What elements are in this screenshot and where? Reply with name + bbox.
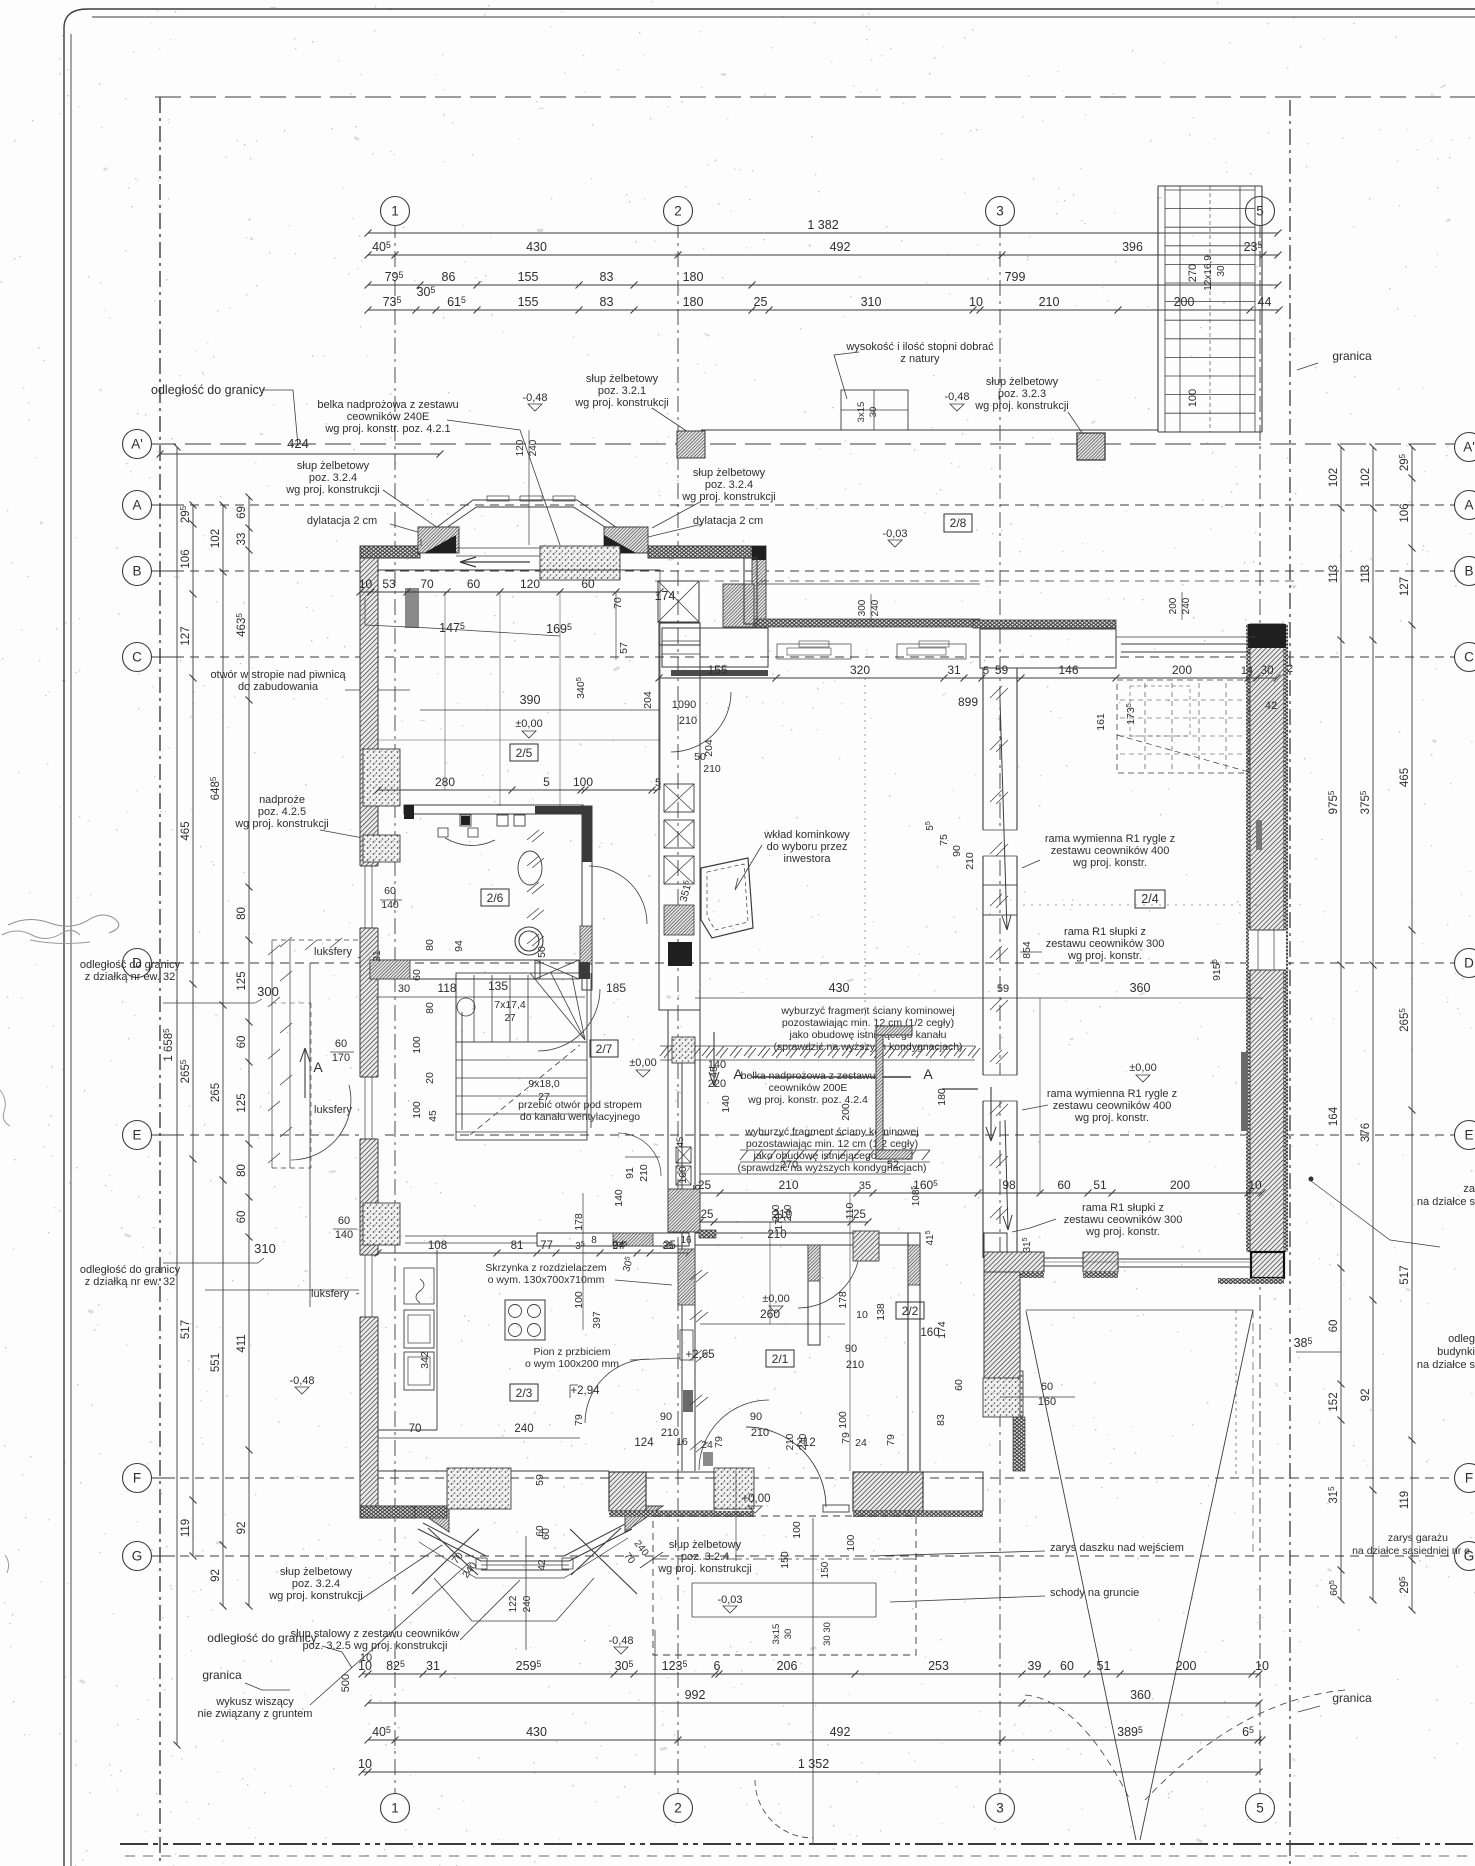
svg-text:z działką nr ew. 32: z działką nr ew. 32: [85, 1276, 176, 1288]
svg-text:210: 210: [751, 1427, 769, 1439]
svg-text:3: 3: [996, 1801, 1004, 1816]
svg-text:belka nadprożowa z zestawu: belka nadprożowa z zestawu: [741, 1070, 876, 1082]
svg-text:210: 210: [679, 715, 697, 727]
svg-text:30: 30: [783, 1629, 794, 1640]
svg-text:wg proj. konstrukcji: wg proj. konstrukcji: [574, 397, 669, 409]
svg-text:83: 83: [935, 1414, 947, 1426]
svg-text:6: 6: [714, 1659, 721, 1673]
svg-text:20: 20: [424, 1072, 436, 1084]
svg-text:2: 2: [674, 1801, 682, 1816]
svg-text:D: D: [1464, 956, 1474, 971]
svg-text:854: 854: [1021, 941, 1033, 959]
svg-text:110: 110: [844, 1202, 856, 1219]
svg-text:376: 376: [1360, 1123, 1372, 1142]
svg-text:210: 210: [785, 1433, 796, 1450]
svg-text:słup żelbetowy: słup żelbetowy: [280, 1566, 353, 1578]
svg-text:42: 42: [1265, 700, 1277, 712]
svg-text:odległość do granicy: odległość do granicy: [151, 383, 266, 397]
svg-text:25: 25: [754, 295, 768, 309]
svg-text:210: 210: [964, 852, 976, 870]
svg-text:otwór w stropie nad piwnicą: otwór w stropie nad piwnicą: [210, 669, 346, 681]
svg-text:180: 180: [683, 295, 704, 309]
svg-text:86: 86: [442, 270, 456, 284]
svg-text:90: 90: [660, 1411, 672, 1423]
svg-text:60: 60: [338, 1215, 350, 1227]
svg-text:ceowników 240E: ceowników 240E: [347, 411, 430, 423]
svg-text:59: 59: [995, 663, 1009, 677]
svg-text:-0,48: -0,48: [522, 392, 547, 404]
svg-text:127: 127: [180, 626, 192, 645]
svg-text:122: 122: [508, 1595, 519, 1612]
svg-text:152: 152: [1328, 1392, 1340, 1411]
svg-text:24: 24: [855, 1437, 867, 1449]
svg-text:210: 210: [703, 763, 721, 775]
svg-text:108: 108: [428, 1240, 447, 1252]
svg-text:200: 200: [1170, 1178, 1190, 1192]
svg-text:210: 210: [846, 1359, 864, 1371]
svg-text:25: 25: [701, 1209, 714, 1221]
svg-text:wg proj. konstrukcji: wg proj. konstrukcji: [657, 1563, 752, 1575]
svg-text:155: 155: [518, 295, 539, 309]
svg-text:90: 90: [750, 1411, 762, 1423]
svg-text:wykusz wiszący: wykusz wiszący: [215, 1696, 294, 1708]
svg-text:+0,00: +0,00: [741, 1493, 770, 1505]
svg-text:(sprawdzić na wyższych kondygn: (sprawdzić na wyższych kondygnacjach): [773, 1041, 962, 1053]
svg-text:słup żelbetowy: słup żelbetowy: [986, 376, 1059, 388]
svg-text:16: 16: [680, 1235, 692, 1246]
svg-text:185: 185: [606, 981, 626, 995]
svg-text:106: 106: [180, 549, 192, 568]
svg-text:118: 118: [437, 981, 456, 995]
svg-text:127: 127: [1399, 577, 1411, 596]
svg-text:30: 30: [1260, 663, 1274, 677]
svg-text:nadproże: nadproże: [259, 794, 305, 806]
svg-text:119: 119: [1399, 1491, 1411, 1509]
svg-text:120: 120: [520, 577, 540, 591]
svg-text:180: 180: [683, 270, 704, 284]
svg-text:5: 5: [543, 775, 550, 789]
svg-text:210: 210: [638, 1164, 650, 1182]
svg-text:492: 492: [830, 240, 851, 254]
svg-text:240: 240: [528, 439, 539, 456]
svg-text:60: 60: [953, 1379, 965, 1391]
svg-text:124: 124: [634, 1437, 654, 1449]
svg-text:luksfery: luksfery: [314, 1104, 352, 1116]
svg-text:odległość do granicy: odległość do granicy: [80, 1264, 181, 1276]
svg-text:wyburzyć fragment ściany komin: wyburzyć fragment ściany kominowej: [780, 1005, 954, 1017]
svg-text:60: 60: [335, 1038, 347, 1050]
svg-text:granica: granica: [1332, 349, 1372, 363]
svg-text:rama R1 słupki z: rama R1 słupki z: [1082, 1202, 1164, 1214]
svg-text:z działką nr ew. 32: z działką nr ew. 32: [85, 971, 176, 983]
svg-text:59: 59: [997, 983, 1009, 995]
svg-text:na działce s: na działce s: [1417, 1196, 1475, 1208]
svg-text:320: 320: [850, 663, 870, 677]
svg-text:poz. 3.2.4: poz. 3.2.4: [309, 472, 357, 484]
svg-text:luksfery: luksfery: [314, 946, 352, 958]
svg-text:1090: 1090: [672, 699, 696, 711]
svg-text:wg proj. konstrukcji: wg proj. konstrukcji: [974, 400, 1069, 412]
svg-text:120: 120: [515, 439, 526, 456]
svg-text:98: 98: [1002, 1178, 1016, 1192]
svg-text:C: C: [132, 650, 142, 665]
svg-text:7x17,4: 7x17,4: [494, 999, 526, 1011]
svg-text:35: 35: [662, 1241, 674, 1252]
svg-text:poz. 3.2.4: poz. 3.2.4: [681, 1551, 729, 1563]
svg-text:83: 83: [600, 270, 614, 284]
svg-text:51: 51: [1093, 1178, 1107, 1192]
svg-text:30: 30: [868, 407, 879, 418]
svg-text:92: 92: [1360, 1389, 1372, 1402]
svg-text:wg proj. konstrukcji: wg proj. konstrukcji: [268, 1590, 363, 1602]
svg-text:±0,00: ±0,00: [1129, 1062, 1156, 1074]
svg-text:1: 1: [391, 1801, 399, 1816]
svg-text:170: 170: [332, 1052, 350, 1064]
svg-text:2: 2: [674, 204, 682, 219]
svg-text:200: 200: [1172, 663, 1192, 677]
svg-text:-0,03: -0,03: [882, 528, 907, 540]
svg-text:70: 70: [612, 597, 624, 609]
svg-text:14: 14: [1241, 665, 1253, 677]
svg-text:500: 500: [340, 1674, 352, 1692]
svg-text:o wym 100x200 mm: o wym 100x200 mm: [525, 1358, 619, 1370]
svg-text:100: 100: [1187, 389, 1199, 407]
svg-text:schody na gruncie: schody na gruncie: [1050, 1587, 1139, 1599]
svg-text:174: 174: [936, 1321, 948, 1339]
svg-text:zestawu ceowników 400: zestawu ceowników 400: [1053, 1100, 1172, 1112]
svg-text:A: A: [1464, 498, 1473, 513]
svg-text:słup żelbetowy: słup żelbetowy: [693, 467, 766, 479]
svg-text:5: 5: [983, 665, 989, 677]
svg-text:2/1: 2/1: [772, 1352, 789, 1366]
svg-text:A': A': [131, 437, 143, 452]
svg-text:wysokość i ilość stopni dobrać: wysokość i ilość stopni dobrać: [845, 341, 994, 353]
svg-text:79: 79: [885, 1434, 897, 1446]
svg-text:100: 100: [573, 775, 593, 789]
svg-text:31: 31: [426, 1659, 440, 1673]
svg-text:poz. 3.2.4: poz. 3.2.4: [705, 479, 753, 491]
svg-text:10: 10: [359, 577, 373, 591]
svg-text:1 6585: 1 6585: [162, 1028, 175, 1062]
svg-text:2: 2: [1287, 663, 1293, 675]
svg-text:wg proj. konstr.: wg proj. konstr.: [1067, 950, 1142, 962]
svg-text:240: 240: [870, 599, 881, 616]
svg-text:80: 80: [424, 1002, 436, 1014]
svg-text:240: 240: [514, 1423, 533, 1435]
svg-text:360: 360: [1130, 1688, 1151, 1702]
svg-text:luksfery: luksfery: [311, 1288, 349, 1300]
svg-text:za: za: [1463, 1183, 1475, 1195]
svg-text:±0,00: ±0,00: [629, 1057, 656, 1069]
svg-text:90: 90: [845, 1343, 857, 1355]
svg-text:3x15: 3x15: [856, 402, 867, 423]
svg-text:31: 31: [372, 950, 383, 962]
svg-text:2/6: 2/6: [487, 891, 504, 905]
svg-text:342: 342: [419, 1351, 431, 1369]
svg-text:F: F: [1465, 1471, 1473, 1486]
svg-text:44: 44: [1258, 295, 1272, 309]
svg-text:z natury: z natury: [900, 353, 940, 365]
svg-text:240: 240: [1181, 597, 1192, 614]
svg-text:1 382: 1 382: [807, 218, 838, 232]
svg-text:odległość do granicy: odległość do granicy: [207, 1631, 316, 1645]
svg-text:pozostawiając min. 12 cm (1/2: pozostawiając min. 12 cm (1/2 cegły): [782, 1017, 954, 1029]
svg-text:100: 100: [837, 1411, 849, 1429]
svg-text:140: 140: [613, 1189, 625, 1207]
svg-text:92: 92: [236, 1522, 248, 1535]
svg-text:551: 551: [210, 1353, 222, 1372]
svg-text:24: 24: [701, 1439, 713, 1451]
svg-text:27: 27: [504, 1013, 516, 1024]
svg-text:80: 80: [236, 907, 248, 920]
svg-text:206: 206: [777, 1659, 798, 1673]
svg-text:10: 10: [1248, 1178, 1262, 1192]
svg-text:dylatacja 2 cm: dylatacja 2 cm: [307, 515, 377, 527]
svg-text:240: 240: [783, 1204, 794, 1221]
svg-text:310: 310: [254, 1241, 276, 1256]
svg-text:odleg: odleg: [1448, 1333, 1475, 1345]
svg-text:słup żelbetowy: słup żelbetowy: [586, 373, 659, 385]
svg-text:150: 150: [779, 1551, 791, 1569]
svg-text:3: 3: [996, 204, 1004, 219]
svg-text:60: 60: [236, 1211, 248, 1224]
svg-text:belka nadprożowa z zestawu: belka nadprożowa z zestawu: [317, 399, 458, 411]
svg-text:138: 138: [875, 1303, 887, 1321]
svg-text:70: 70: [409, 1423, 422, 1435]
svg-text:92: 92: [210, 1569, 222, 1582]
svg-text:zestawu ceowników 400: zestawu ceowników 400: [1051, 845, 1170, 857]
svg-text:-0,48: -0,48: [608, 1635, 633, 1647]
svg-text:79: 79: [573, 1414, 585, 1426]
svg-text:2/4: 2/4: [1141, 892, 1158, 906]
svg-text:140: 140: [335, 1229, 353, 1241]
svg-text:2/2: 2/2: [902, 1304, 919, 1318]
svg-text:146: 146: [1058, 663, 1078, 677]
svg-text:jako obudowę istniejącego kana: jako obudowę istniejącego kanału: [788, 1029, 946, 1041]
svg-text:pozostawiając min. 12 cm (1/2: pozostawiając min. 12 cm (1/2 cegły): [746, 1138, 918, 1150]
svg-text:wg proj. konstr. poz. 4.2.1: wg proj. konstr. poz. 4.2.1: [324, 423, 450, 435]
svg-text:12x16,9: 12x16,9: [1203, 255, 1214, 291]
svg-text:411: 411: [236, 1334, 248, 1352]
svg-text:200: 200: [771, 1204, 782, 1221]
svg-text:9x18,0: 9x18,0: [528, 1078, 560, 1090]
svg-text:10: 10: [360, 1652, 372, 1664]
svg-text:Skrzynka z rozdzielaczem: Skrzynka z rozdzielaczem: [485, 1262, 607, 1274]
svg-text:300: 300: [857, 599, 868, 616]
svg-text:rama R1 słupki z: rama R1 słupki z: [1064, 926, 1146, 938]
svg-text:poz. 3.2.5 wg proj. konstrukcj: poz. 3.2.5 wg proj. konstrukcji: [303, 1640, 448, 1652]
svg-text:10: 10: [856, 1309, 868, 1321]
svg-text:53: 53: [382, 577, 396, 591]
svg-text:zestawu ceowników 300: zestawu ceowników 300: [1046, 938, 1165, 950]
svg-text:60: 60: [1041, 1381, 1053, 1393]
svg-text:465: 465: [180, 821, 192, 840]
svg-text:360: 360: [1130, 981, 1151, 995]
svg-text:52: 52: [887, 1159, 899, 1171]
svg-text:10: 10: [358, 1757, 372, 1771]
svg-text:3x15: 3x15: [771, 1624, 782, 1645]
svg-text:±0,00: ±0,00: [515, 718, 542, 730]
svg-text:1: 1: [391, 204, 399, 219]
svg-text:161: 161: [1095, 713, 1107, 731]
svg-text:30 30: 30 30: [822, 1622, 833, 1646]
svg-text:113: 113: [1360, 565, 1372, 583]
svg-text:10: 10: [969, 295, 983, 309]
svg-text:A: A: [132, 498, 141, 513]
svg-text:77: 77: [540, 1240, 553, 1252]
svg-text:zarys daszku nad wejściem: zarys daszku nad wejściem: [1050, 1542, 1184, 1554]
svg-text:przebić otwór pod stropem: przebić otwór pod stropem: [518, 1099, 642, 1111]
svg-text:430: 430: [526, 1725, 547, 1739]
svg-text:60: 60: [467, 577, 481, 591]
svg-text:Pion z przbiciem: Pion z przbiciem: [533, 1346, 610, 1358]
svg-text:odległość do granicy: odległość do granicy: [80, 959, 181, 971]
svg-text:517: 517: [1399, 1265, 1411, 1284]
svg-text:60: 60: [535, 1525, 546, 1537]
svg-text:70: 70: [420, 577, 434, 591]
svg-text:45: 45: [675, 1137, 686, 1148]
svg-text:91: 91: [624, 1167, 636, 1179]
svg-text:E: E: [1464, 1128, 1473, 1143]
svg-text:wg proj. konstrukcji: wg proj. konstrukcji: [681, 491, 776, 503]
svg-text:180: 180: [936, 1088, 948, 1106]
svg-text:+2,65: +2,65: [685, 1349, 714, 1361]
svg-text:135: 135: [488, 979, 508, 993]
svg-text:wyburzyć fragment ściany komin: wyburzyć fragment ściany kominowej: [744, 1126, 918, 1138]
svg-text:160: 160: [1038, 1396, 1056, 1408]
svg-text:45: 45: [427, 1110, 439, 1122]
svg-text:265: 265: [210, 1083, 222, 1102]
svg-text:113: 113: [1328, 565, 1340, 583]
svg-text:granica: granica: [1332, 1691, 1372, 1705]
svg-text:granica: granica: [202, 1668, 242, 1682]
svg-text:A: A: [313, 1059, 323, 1075]
svg-text:33: 33: [236, 533, 248, 546]
svg-text:799: 799: [1005, 270, 1026, 284]
svg-text:E: E: [132, 1128, 141, 1143]
svg-text:140: 140: [381, 899, 399, 911]
svg-text:50: 50: [694, 751, 706, 763]
svg-text:rama wymienna R1 rygle z: rama wymienna R1 rygle z: [1045, 833, 1175, 845]
svg-text:253: 253: [928, 1659, 949, 1673]
svg-text:102: 102: [210, 529, 222, 548]
svg-text:992: 992: [685, 1688, 706, 1702]
svg-text:A: A: [923, 1066, 933, 1082]
svg-text:79: 79: [713, 1436, 725, 1448]
svg-text:100: 100: [411, 1101, 423, 1119]
svg-text:35: 35: [859, 1180, 871, 1192]
svg-text:270: 270: [1187, 264, 1199, 282]
svg-text:o wym. 130x700x710mm: o wym. 130x700x710mm: [488, 1274, 605, 1286]
svg-text:397: 397: [591, 1311, 603, 1329]
svg-text:396: 396: [1122, 240, 1143, 254]
svg-text:94: 94: [453, 940, 465, 952]
svg-text:60: 60: [384, 885, 396, 897]
svg-text:60: 60: [581, 577, 595, 591]
svg-text:1 352: 1 352: [798, 1757, 829, 1771]
svg-text:81: 81: [511, 1240, 524, 1252]
svg-text:wkład kominkowy: wkład kominkowy: [763, 829, 850, 841]
svg-text:212: 212: [796, 1437, 815, 1449]
svg-text:57: 57: [618, 642, 630, 654]
svg-text:220: 220: [708, 1078, 726, 1090]
svg-text:102: 102: [1328, 468, 1340, 487]
svg-text:69: 69: [236, 506, 248, 519]
svg-text:60: 60: [1057, 1178, 1071, 1192]
svg-text:465: 465: [1399, 768, 1411, 787]
svg-text:wg proj. konstr.: wg proj. konstr.: [1074, 1112, 1149, 1124]
svg-text:G: G: [132, 1549, 143, 1564]
svg-text:5: 5: [1256, 204, 1264, 219]
svg-text:100: 100: [411, 1036, 423, 1054]
svg-text:517: 517: [180, 1320, 192, 1339]
svg-text:492: 492: [830, 1725, 851, 1739]
svg-text:90: 90: [951, 845, 963, 857]
svg-text:5: 5: [1256, 1801, 1264, 1816]
svg-text:200: 200: [1168, 597, 1179, 614]
svg-text:poz. 3.2.4: poz. 3.2.4: [292, 1578, 340, 1590]
svg-text:nie związany z gruntem: nie związany z gruntem: [198, 1708, 313, 1720]
svg-text:210: 210: [778, 1178, 798, 1192]
svg-text:słup żelbetowy: słup żelbetowy: [297, 460, 370, 472]
svg-text:wg proj. konstrukcji: wg proj. konstrukcji: [285, 484, 380, 496]
svg-text:75: 75: [938, 834, 950, 846]
svg-text:155: 155: [518, 270, 539, 284]
svg-text:do kanału wentylacyjnego: do kanału wentylacyjnego: [520, 1111, 640, 1123]
svg-text:100: 100: [846, 1534, 857, 1551]
svg-text:200: 200: [840, 1103, 852, 1121]
svg-text:budynki: budynki: [1437, 1346, 1475, 1358]
svg-text:200: 200: [1176, 1659, 1197, 1673]
svg-text:106: 106: [1399, 503, 1411, 522]
svg-text:2/3: 2/3: [516, 1386, 533, 1400]
svg-text:155: 155: [707, 663, 727, 677]
svg-text:240: 240: [522, 1595, 533, 1612]
svg-text:zestawu ceowników 300: zestawu ceowników 300: [1064, 1214, 1183, 1226]
svg-text:do wyboru przez: do wyboru przez: [767, 841, 848, 853]
svg-text:do zabudowania: do zabudowania: [238, 681, 319, 693]
svg-text:300: 300: [257, 984, 279, 999]
svg-text:B: B: [1464, 564, 1473, 579]
svg-text:42: 42: [537, 1559, 548, 1571]
svg-text:-0,03: -0,03: [717, 1594, 742, 1606]
svg-text:270: 270: [780, 1159, 798, 1171]
svg-text:rama wymienna R1 rygle z: rama wymienna R1 rygle z: [1047, 1088, 1177, 1100]
svg-text:59: 59: [534, 1474, 546, 1486]
svg-text:80: 80: [424, 939, 436, 951]
svg-text:83: 83: [600, 295, 614, 309]
svg-text:zarys garażu: zarys garażu: [1388, 1532, 1448, 1544]
svg-text:31: 31: [947, 663, 961, 677]
svg-text:50: 50: [536, 946, 548, 958]
svg-text:164: 164: [1328, 1106, 1340, 1126]
svg-text:102: 102: [1360, 468, 1372, 487]
svg-text:174: 174: [655, 589, 676, 603]
svg-text:390: 390: [520, 693, 541, 707]
svg-text:F: F: [133, 1471, 141, 1486]
svg-text:60: 60: [1328, 1320, 1340, 1333]
svg-text:na działce s: na działce s: [1417, 1359, 1475, 1371]
svg-text:C: C: [1464, 650, 1474, 665]
svg-text:poz. 3.2.1: poz. 3.2.1: [598, 385, 646, 397]
svg-text:125: 125: [236, 971, 248, 990]
svg-text:-0,48: -0,48: [289, 1375, 314, 1387]
svg-text:178: 178: [837, 1291, 849, 1309]
svg-text:10: 10: [1255, 1659, 1269, 1673]
svg-text:ceowników 200E: ceowników 200E: [769, 1082, 848, 1094]
svg-text:na działce sąsiedniej nr e: na działce sąsiedniej nr e: [1352, 1545, 1470, 1557]
svg-text:39: 39: [1028, 1659, 1042, 1673]
